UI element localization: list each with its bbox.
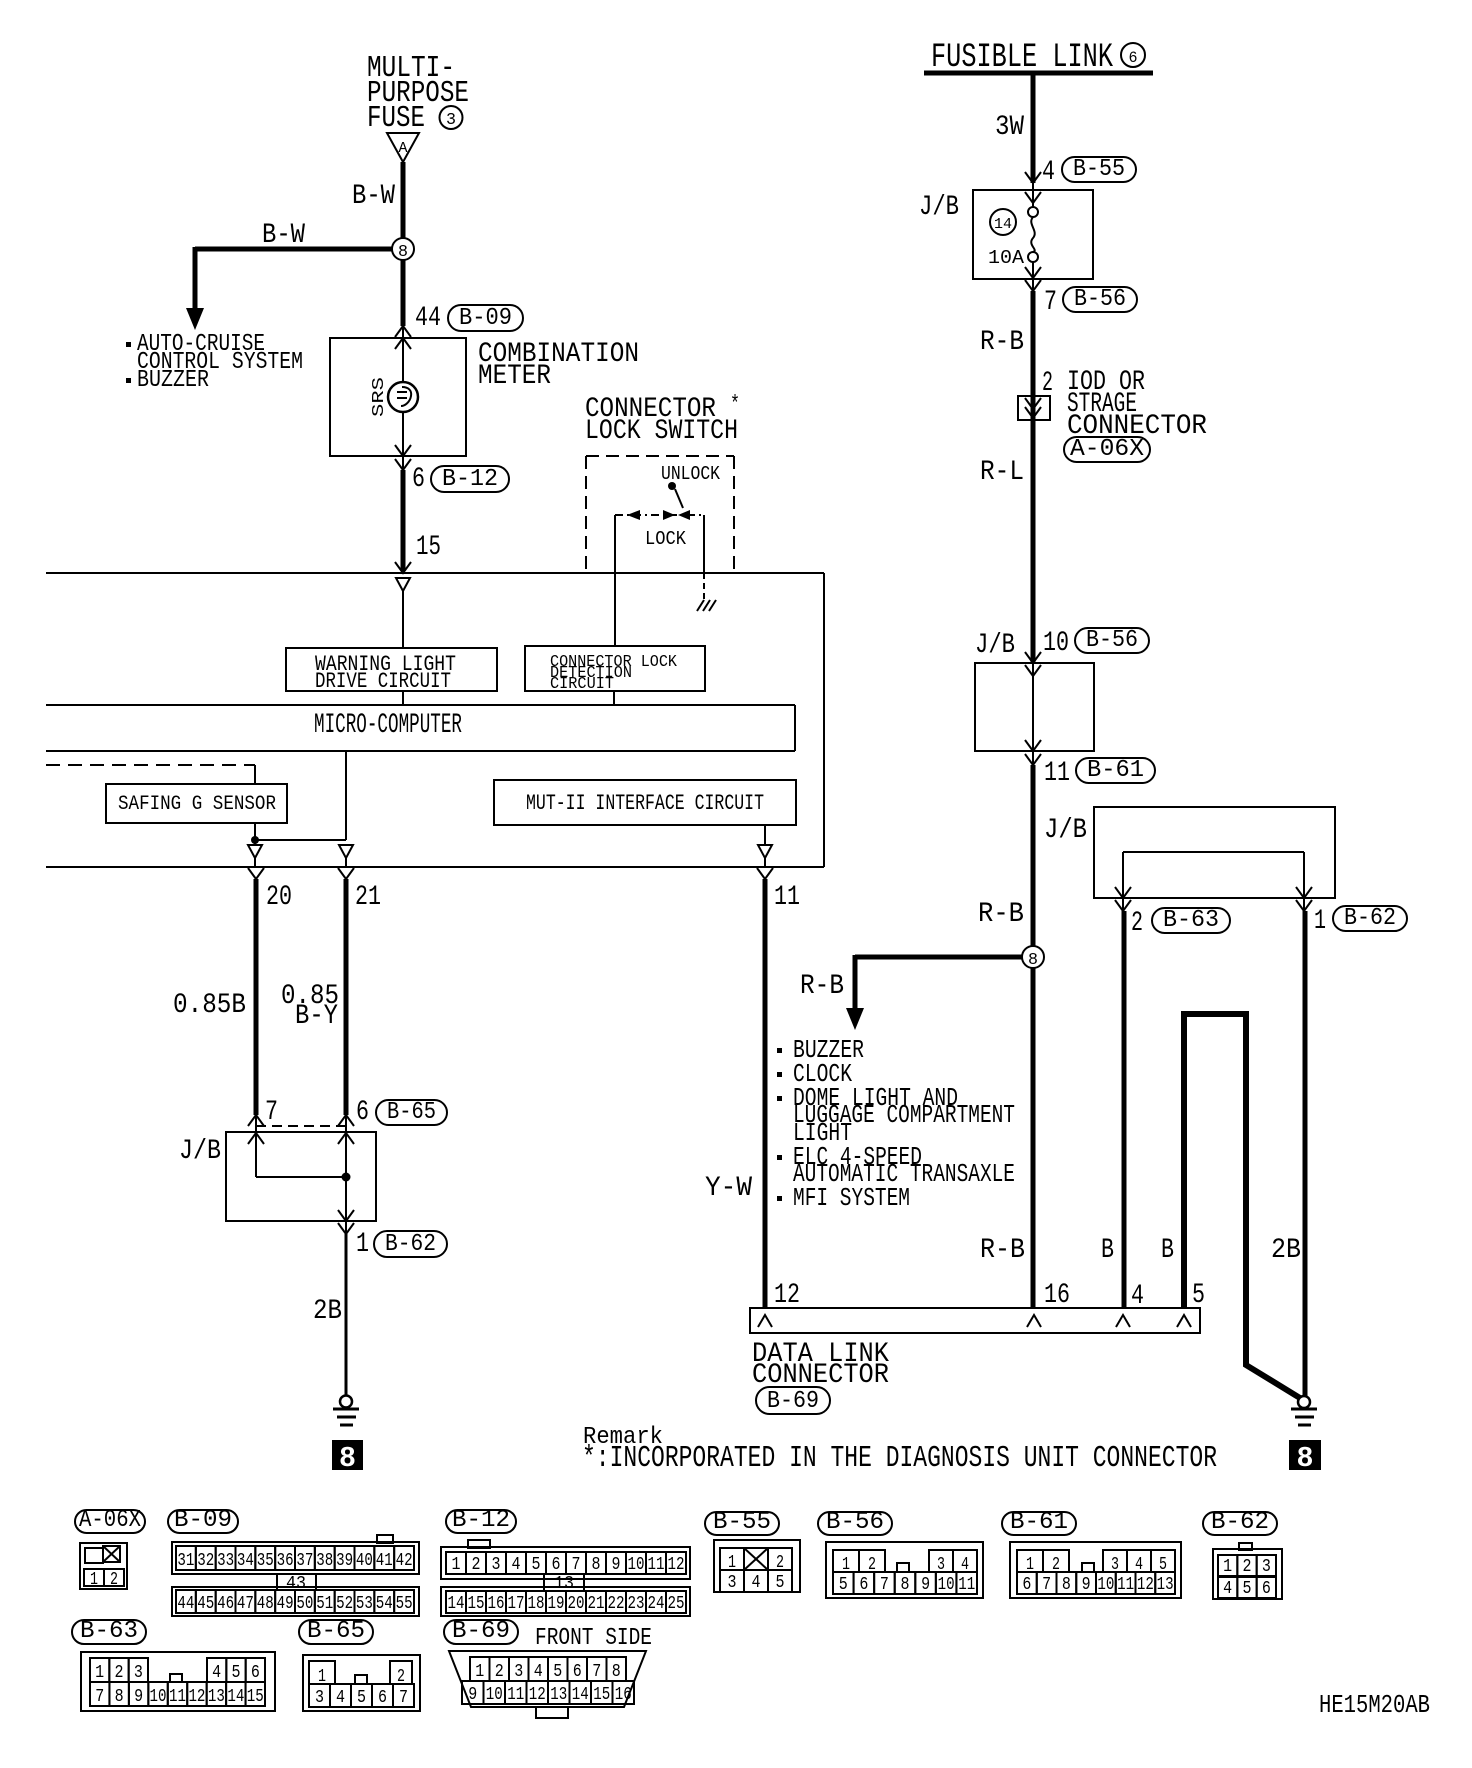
svg-text:6: 6 [1129, 49, 1138, 67]
svg-text:R-B: R-B [978, 899, 1024, 930]
svg-text:B-55: B-55 [1073, 156, 1125, 183]
svg-text:4: 4 [336, 1688, 345, 1708]
svg-text:4: 4 [752, 1573, 761, 1593]
svg-text:1: 1 [90, 1570, 98, 1590]
svg-text:12: 12 [529, 1685, 546, 1705]
svg-text:36: 36 [277, 1551, 294, 1571]
svg-text:7: 7 [399, 1688, 408, 1708]
svg-text:6: 6 [573, 1662, 582, 1682]
svg-text:6: 6 [412, 464, 425, 495]
svg-text:5: 5 [1192, 1280, 1205, 1311]
svg-text:Y-W: Y-W [705, 1173, 752, 1204]
svg-text:METER: METER [478, 361, 551, 392]
svg-text:5: 5 [1243, 1579, 1252, 1599]
svg-text:51: 51 [316, 1594, 333, 1614]
svg-text:2: 2 [1243, 1557, 1252, 1577]
svg-text:A-06X: A-06X [1070, 436, 1144, 463]
svg-text:9: 9 [134, 1687, 143, 1707]
svg-text:A: A [399, 140, 408, 157]
svg-text:48: 48 [257, 1594, 274, 1614]
svg-text:R-B: R-B [980, 1235, 1025, 1266]
svg-text:40: 40 [356, 1551, 373, 1571]
svg-text:2: 2 [495, 1662, 504, 1682]
svg-text:3W: 3W [995, 112, 1024, 143]
svg-text:24: 24 [648, 1594, 665, 1614]
svg-text:10: 10 [486, 1685, 503, 1705]
svg-text:8: 8 [612, 1662, 621, 1682]
svg-text:16: 16 [615, 1685, 632, 1705]
svg-text:55: 55 [396, 1594, 413, 1614]
svg-text:3: 3 [1262, 1557, 1271, 1577]
svg-text:3: 3 [514, 1662, 523, 1682]
svg-text:4: 4 [1042, 157, 1055, 188]
svg-text:HE15M20AB: HE15M20AB [1319, 1690, 1430, 1720]
svg-text:35: 35 [257, 1551, 274, 1571]
svg-text:12: 12 [1137, 1575, 1154, 1595]
svg-text:B-W: B-W [262, 220, 305, 251]
svg-text:8: 8 [398, 243, 408, 262]
svg-text:44: 44 [177, 1594, 194, 1614]
svg-text:CIRCUIT: CIRCUIT [550, 675, 614, 694]
svg-text:B: B [1161, 1235, 1174, 1266]
svg-text:32: 32 [197, 1551, 214, 1571]
svg-text:5: 5 [357, 1688, 366, 1708]
svg-text:8: 8 [1062, 1575, 1071, 1595]
svg-text:4: 4 [512, 1555, 521, 1575]
svg-text:6: 6 [378, 1688, 387, 1708]
svg-text:12: 12 [774, 1280, 800, 1311]
svg-text:FUSE: FUSE [367, 101, 425, 136]
svg-text:6: 6 [1022, 1575, 1031, 1595]
svg-text:5: 5 [839, 1575, 848, 1595]
svg-text:18: 18 [528, 1594, 545, 1614]
svg-text:34: 34 [237, 1551, 254, 1571]
svg-text:3: 3 [446, 111, 456, 130]
svg-text:42: 42 [396, 1551, 413, 1571]
svg-text:11: 11 [774, 882, 800, 913]
svg-text:7: 7 [1042, 1575, 1051, 1595]
svg-text:8: 8 [592, 1555, 601, 1575]
svg-text:FRONT SIDE: FRONT SIDE [535, 1625, 652, 1652]
svg-text:7: 7 [880, 1575, 889, 1595]
svg-text:11: 11 [507, 1685, 524, 1705]
svg-text:13: 13 [208, 1687, 225, 1707]
svg-text:4: 4 [1223, 1579, 1232, 1599]
svg-text:R-B: R-B [980, 327, 1024, 358]
svg-text:13: 13 [1157, 1575, 1174, 1595]
svg-text:38: 38 [316, 1551, 333, 1571]
svg-text:12: 12 [668, 1555, 685, 1575]
svg-text:BUZZER: BUZZER [137, 367, 209, 394]
svg-text:B-62: B-62 [385, 1231, 436, 1258]
svg-text:14: 14 [572, 1685, 589, 1705]
svg-text:0.85B: 0.85B [173, 990, 246, 1021]
svg-text:UNLOCK: UNLOCK [661, 463, 721, 485]
svg-text:13: 13 [550, 1685, 567, 1705]
svg-text:12: 12 [188, 1687, 205, 1707]
svg-text:1: 1 [475, 1662, 484, 1682]
svg-text:17: 17 [508, 1594, 525, 1614]
svg-text:B-09: B-09 [174, 1507, 232, 1534]
svg-text:9: 9 [612, 1555, 621, 1575]
svg-text:11: 11 [958, 1575, 975, 1595]
svg-text:1: 1 [1314, 906, 1326, 937]
svg-text:B-12: B-12 [442, 466, 498, 493]
svg-text:5: 5 [232, 1663, 241, 1683]
svg-text:41: 41 [376, 1551, 393, 1571]
svg-text:2B: 2B [313, 1296, 342, 1327]
svg-text:8: 8 [115, 1687, 124, 1707]
svg-text:10A: 10A [988, 247, 1025, 269]
svg-text:21: 21 [588, 1594, 605, 1614]
svg-text:B-12: B-12 [452, 1507, 510, 1534]
svg-text:B-65: B-65 [307, 1618, 365, 1645]
svg-text:B-69: B-69 [452, 1618, 510, 1645]
svg-text:DRIVE CIRCUIT: DRIVE CIRCUIT [315, 669, 451, 694]
svg-text:49: 49 [277, 1594, 294, 1614]
svg-text:11: 11 [169, 1687, 186, 1707]
svg-text:MFI SYSTEM: MFI SYSTEM [793, 1183, 910, 1213]
svg-text:*: * [730, 392, 740, 417]
svg-text:7: 7 [572, 1555, 581, 1575]
svg-text:47: 47 [237, 1594, 254, 1614]
svg-text:3: 3 [134, 1663, 143, 1683]
svg-text:10: 10 [938, 1575, 955, 1595]
svg-text:B-56: B-56 [1086, 627, 1138, 654]
svg-text:SRS: SRS [370, 377, 389, 417]
svg-text:B-61: B-61 [1087, 757, 1144, 784]
svg-text:MICRO-COMPUTER: MICRO-COMPUTER [314, 710, 462, 741]
svg-text:MUT-II INTERFACE CIRCUIT: MUT-II INTERFACE CIRCUIT [526, 791, 764, 816]
svg-text:52: 52 [336, 1594, 353, 1614]
svg-text:3: 3 [492, 1555, 501, 1575]
svg-text:J/B: J/B [919, 192, 959, 223]
svg-text:5: 5 [553, 1662, 562, 1682]
svg-text:20: 20 [266, 882, 292, 913]
svg-text:15: 15 [416, 532, 441, 563]
svg-text:11: 11 [1044, 758, 1070, 789]
svg-text:2: 2 [472, 1555, 481, 1575]
svg-text:R-B: R-B [800, 971, 844, 1002]
svg-text:2: 2 [1131, 908, 1143, 939]
svg-text:B-65: B-65 [387, 1099, 436, 1126]
svg-text:8: 8 [1297, 1442, 1314, 1475]
svg-text:14: 14 [448, 1594, 465, 1614]
svg-text:20: 20 [568, 1594, 585, 1614]
svg-text:14: 14 [994, 216, 1012, 233]
svg-text:46: 46 [217, 1594, 234, 1614]
svg-text:B-61: B-61 [1010, 1509, 1068, 1536]
svg-text:6: 6 [251, 1663, 260, 1683]
svg-text:4: 4 [534, 1662, 543, 1682]
svg-text:7: 7 [1044, 287, 1057, 318]
svg-text:B-62: B-62 [1344, 905, 1396, 932]
svg-text:14: 14 [227, 1687, 244, 1707]
svg-text:LOCK: LOCK [645, 528, 687, 550]
svg-text:8: 8 [339, 1442, 356, 1475]
svg-text:9: 9 [921, 1575, 930, 1595]
svg-text:2: 2 [115, 1663, 124, 1683]
svg-text:SAFING G SENSOR: SAFING G SENSOR [118, 793, 276, 816]
svg-text:15: 15 [593, 1685, 610, 1705]
svg-text:3: 3 [728, 1573, 737, 1593]
svg-text:7: 7 [95, 1687, 104, 1707]
svg-text:5: 5 [532, 1555, 541, 1575]
svg-text:B-63: B-63 [1163, 907, 1219, 934]
svg-text:A-06X: A-06X [79, 1507, 141, 1534]
svg-text:39: 39 [336, 1551, 353, 1571]
svg-text:J/B: J/B [975, 630, 1015, 661]
svg-text:23: 23 [628, 1594, 645, 1614]
svg-text:9: 9 [1082, 1575, 1091, 1595]
svg-text:B-09: B-09 [459, 305, 512, 332]
svg-text:10: 10 [150, 1687, 167, 1707]
svg-text:10: 10 [628, 1555, 645, 1575]
svg-text:B-62: B-62 [1211, 1509, 1269, 1536]
svg-text:B-56: B-56 [826, 1509, 884, 1536]
svg-text:11: 11 [648, 1555, 665, 1575]
svg-text:3: 3 [315, 1688, 324, 1708]
svg-text:J/B: J/B [1044, 815, 1087, 846]
svg-text:B-W: B-W [352, 181, 395, 212]
svg-text:9: 9 [468, 1685, 477, 1705]
svg-text:10: 10 [1043, 628, 1069, 659]
svg-text:2: 2 [1042, 368, 1053, 399]
svg-text:54: 54 [376, 1594, 393, 1614]
svg-text:45: 45 [197, 1594, 214, 1614]
svg-text:B-56: B-56 [1074, 286, 1126, 313]
svg-text:6: 6 [552, 1555, 561, 1575]
svg-text:10: 10 [1097, 1575, 1114, 1595]
svg-text:21: 21 [355, 882, 381, 913]
svg-text:16: 16 [488, 1594, 505, 1614]
svg-text:4: 4 [212, 1663, 221, 1683]
svg-text:B-63: B-63 [80, 1618, 138, 1645]
svg-text:B: B [1101, 1235, 1114, 1266]
svg-text:25: 25 [668, 1594, 685, 1614]
svg-text:16: 16 [1044, 1280, 1070, 1311]
svg-text:5: 5 [776, 1573, 785, 1593]
svg-text:8: 8 [901, 1575, 910, 1595]
svg-text:2: 2 [110, 1570, 118, 1590]
svg-text:33: 33 [217, 1551, 234, 1571]
svg-text:B-Y: B-Y [295, 1001, 338, 1032]
svg-text:15: 15 [247, 1687, 264, 1707]
svg-text:6: 6 [1262, 1579, 1271, 1599]
svg-text:6: 6 [356, 1097, 369, 1128]
svg-text:31: 31 [177, 1551, 194, 1571]
svg-text:50: 50 [296, 1594, 313, 1614]
svg-text:11: 11 [1117, 1575, 1134, 1595]
svg-text:7: 7 [592, 1662, 601, 1682]
svg-text:7: 7 [265, 1097, 278, 1128]
svg-text:6: 6 [859, 1575, 868, 1595]
svg-text:8: 8 [1028, 951, 1038, 970]
svg-text:1: 1 [356, 1229, 369, 1260]
svg-text:1: 1 [452, 1555, 461, 1575]
svg-text:19: 19 [548, 1594, 565, 1614]
svg-text:1: 1 [1223, 1557, 1232, 1577]
svg-text:15: 15 [468, 1594, 485, 1614]
svg-text:44: 44 [415, 303, 441, 334]
svg-text:B-55: B-55 [713, 1509, 771, 1536]
svg-text:2B: 2B [1271, 1235, 1301, 1266]
svg-text:J/B: J/B [179, 1136, 221, 1167]
svg-text:53: 53 [356, 1594, 373, 1614]
svg-text:1: 1 [95, 1663, 104, 1683]
svg-text:37: 37 [296, 1551, 313, 1571]
svg-text:*:INCORPORATED IN THE DIAGNOSI: *:INCORPORATED IN THE DIAGNOSIS UNIT CON… [582, 1441, 1217, 1476]
svg-text:R-L: R-L [980, 457, 1024, 488]
svg-text:B-69: B-69 [767, 1388, 819, 1415]
svg-text:LOCK SWITCH: LOCK SWITCH [585, 416, 738, 447]
svg-text:22: 22 [608, 1594, 625, 1614]
